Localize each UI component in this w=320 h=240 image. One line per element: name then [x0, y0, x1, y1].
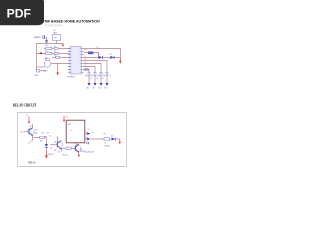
node tick right [92, 132, 94, 135]
node tick [45, 135, 47, 138]
svg-text:MK1: MK1 [45, 58, 48, 60]
transistor Q1 [28, 128, 35, 135]
svg-text:R2: R2 [42, 133, 44, 135]
svg-text:Q1: Q1 [47, 133, 49, 135]
relay RL1 box [66, 120, 85, 143]
svg-text:D1: D1 [98, 54, 100, 56]
svg-text:R1: R1 [35, 129, 37, 131]
wire output Q3 [84, 66, 95, 82]
IC pin stubs left [68, 48, 70, 72]
wire row2 [37, 52, 70, 54]
wire resistor to node [71, 147, 75, 149]
wire node down [46, 37, 48, 43]
svg-text:BC547: BC547 [62, 155, 67, 157]
power flag relay 12V [63, 116, 65, 120]
capacitor C1 plates [45, 39, 48, 42]
svg-text:Q1: Q1 [30, 126, 32, 128]
svg-text:StD: StD [84, 48, 88, 51]
svg-text:R6: R6 [85, 75, 87, 77]
svg-text:MT8870: MT8870 [68, 77, 75, 79]
speaker LS1 circle [44, 60, 51, 67]
resistor R3 [46, 47, 52, 49]
terminal arrow 2 [87, 138, 90, 141]
terminal arrow col1 [88, 83, 91, 86]
tick term2 [86, 136, 88, 139]
red tick under Q3 [58, 151, 60, 154]
wire relay to Q2 [76, 143, 79, 144]
ground flag bottom left [45, 151, 47, 156]
wire mid row [33, 136, 46, 138]
node tick q2 [57, 136, 59, 139]
IC pin stubs right [82, 48, 84, 72]
wire Q1 emitter [32, 136, 34, 140]
ground flag right relay [119, 139, 121, 142]
svg-text:RL1: RL1 [68, 124, 71, 126]
svg-text:Q3: Q3 [54, 142, 56, 144]
svg-text:RELAY CIRCUIT: RELAY CIRCUIT [13, 103, 37, 108]
svg-text:R9: R9 [103, 75, 105, 77]
ground flag under Q2 [78, 152, 80, 154]
terminal arrow 1 [87, 132, 90, 135]
terminal arrow col3 [100, 83, 103, 86]
wire output Q1 [84, 60, 107, 82]
svg-text:R8: R8 [97, 75, 99, 77]
svg-text:1k: 1k [104, 143, 106, 145]
resistor R4 [46, 52, 52, 54]
svg-text:C1: C1 [49, 135, 51, 137]
svg-text:Q2: Q2 [54, 150, 56, 152]
svg-text:RL4: RL4 [105, 87, 108, 89]
transistor Q2 [74, 145, 81, 152]
svg-text:68k: 68k [34, 133, 37, 135]
svg-text:RL3: RL3 [99, 87, 102, 89]
relay circuit frame [18, 112, 127, 166]
resistor on col1 [88, 72, 90, 75]
svg-text:DTMF BASED HOME AUTOMATION: DTMF BASED HOME AUTOMATION [40, 18, 100, 23]
PDF badge [0, 0, 44, 25]
capacitor C1 [54, 47, 58, 49]
svg-text:Q2=BC557: Q2=BC557 [85, 152, 94, 154]
wire output Q4 [84, 69, 89, 82]
svg-text:1k: 1k [90, 78, 92, 80]
svg-text:PDF: PDF [7, 7, 31, 21]
capacitor C2 [54, 52, 58, 54]
diode D1 [99, 56, 102, 59]
diode D3 down [45, 144, 48, 147]
terminal arrow col4 [106, 83, 109, 86]
op IC U2 MT8870 [70, 46, 82, 74]
svg-text:R3: R3 [45, 45, 47, 47]
wire row1 [44, 47, 70, 49]
svg-text:BC547: BC547 [48, 154, 53, 156]
transistor Q3 [56, 141, 63, 148]
diode D2 right [112, 138, 115, 141]
wire bottom row [37, 70, 46, 72]
junction node [75, 148, 76, 149]
wire base row [61, 147, 66, 149]
diode D2 [110, 56, 113, 59]
svg-text:D3: D3 [50, 147, 52, 149]
wire diode to flag [116, 138, 120, 140]
svg-text:RELAY: RELAY [28, 162, 36, 165]
wire speaker to IC [51, 62, 70, 64]
wire left rail [36, 43, 38, 70]
svg-text:D2: D2 [111, 136, 113, 138]
svg-text:1k: 1k [96, 78, 98, 80]
svg-text:12V: 12V [26, 115, 29, 117]
relay terminal stub 1 [85, 133, 87, 135]
tick term1 [86, 131, 88, 134]
terminal arrow col2 [94, 83, 97, 86]
cap marks right [86, 142, 89, 144]
resistor on Q4 row [85, 68, 88, 70]
svg-text:IN1: IN1 [30, 140, 33, 142]
svg-text:1N4007: 1N4007 [104, 145, 110, 147]
resistor on col2 [94, 72, 96, 75]
svg-text:D1: D1 [88, 129, 90, 131]
capacitor C4 [36, 70, 39, 72]
wire diode row [84, 56, 121, 58]
svg-text:1k: 1k [102, 78, 104, 80]
power flag VCC [62, 43, 64, 44]
svg-text:10k: 10k [40, 140, 43, 142]
wire diode to ground [45, 148, 47, 151]
wire input to base [25, 130, 28, 132]
svg-text:1k: 1k [110, 75, 112, 77]
svg-text:R2: R2 [104, 133, 106, 135]
svg-text:1k: 1k [28, 143, 30, 145]
svg-text:7805: 7805 [53, 32, 57, 34]
capacitor C3 [56, 56, 60, 58]
wire IC top to right rail [84, 48, 121, 57]
wire to speaker [37, 66, 45, 68]
svg-text:RL2: RL2 [93, 87, 96, 89]
resistor R10 [66, 147, 71, 149]
svg-text:RL1: RL1 [87, 87, 90, 89]
wire resistor to diode [109, 138, 111, 140]
wire Q3 emitter [60, 149, 62, 151]
resistor R2 right [104, 138, 109, 140]
wire mains to node [45, 36, 47, 38]
svg-text:RL1B: RL1B [20, 131, 26, 133]
resistor R5 [88, 52, 93, 55]
ground flag mid [57, 63, 59, 72]
svg-text:MAINS: MAINS [34, 36, 41, 39]
wire regulator to bus [56, 40, 58, 43]
wire power bus [37, 42, 63, 44]
resistor on col4 [106, 72, 108, 75]
resistor on col3 [100, 72, 102, 75]
wire output Q2 [84, 63, 101, 82]
resistor R2 [40, 136, 45, 138]
wire row3 [52, 56, 70, 58]
svg-text:POWER SUPPLY: POWER SUPPLY [45, 25, 64, 27]
svg-text:Q1: Q1 [84, 56, 86, 58]
wire Q1 collector [32, 124, 34, 128]
IC pin numbers [71, 48, 81, 72]
relay terminal stub 2 [85, 138, 87, 140]
wire StD row [84, 52, 99, 57]
svg-text:R7: R7 [91, 75, 93, 77]
mains plug terminal [42, 35, 45, 39]
svg-text:x x: x x [70, 130, 72, 132]
svg-text:12V: 12V [66, 116, 69, 118]
wire contact row [90, 138, 104, 140]
wire down to diode [45, 137, 47, 144]
svg-text:D2: D2 [110, 54, 112, 56]
regulator U1 box [53, 34, 61, 40]
ground flag right [119, 57, 121, 60]
wire Q3 collector [57, 138, 59, 142]
junction arrow row2 [40, 53, 42, 55]
svg-text:GND: GND [34, 75, 39, 77]
